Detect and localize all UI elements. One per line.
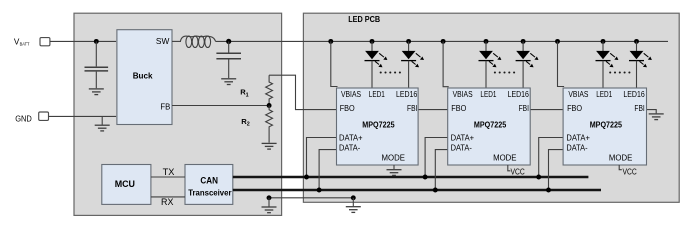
wire VBIAS1 [331, 41, 338, 86]
resistor R1 [266, 75, 273, 105]
wire DATA+ chip3 [539, 138, 563, 178]
wire VBATT to Buck [50, 40, 116, 42]
LED string D4 [516, 41, 539, 88]
svg-text:LED16: LED16 [396, 90, 418, 99]
wire MODE3 to VCC [619, 165, 622, 170]
node ground bus right [351, 195, 356, 200]
svg-text:RX: RX [161, 197, 173, 207]
ground MODE1 [387, 170, 402, 176]
port VBATT [40, 38, 50, 46]
svg-text:Transceiver: Transceiver [188, 188, 231, 197]
buck converter U buck [117, 30, 172, 125]
wire SW to inductor [172, 40, 181, 42]
dots separator chip3 [609, 71, 630, 73]
wire FBI2 to FBO3 [530, 109, 563, 111]
chip U1 MPQ7225 [337, 88, 419, 165]
ground FBI3 [649, 114, 664, 120]
svg-text:MCU: MCU [115, 179, 135, 189]
wire FB to divider [172, 105, 269, 107]
node DATA- bus chip3 [546, 188, 551, 193]
wire DATA+ chip1 [307, 138, 337, 178]
wire VBIAS2 [443, 41, 449, 86]
capacitor C_in [85, 41, 109, 88]
svg-text:FB: FB [160, 101, 170, 111]
svg-text:LED1: LED1 [480, 90, 496, 99]
LED string D6 [629, 41, 652, 88]
node DATA+ bus chip2 [423, 175, 428, 180]
wire TX [151, 176, 185, 178]
svg-text:VCC: VCC [623, 168, 637, 177]
bus DATA- [233, 189, 601, 191]
svg-text:LED16: LED16 [623, 90, 645, 99]
node VBIAS2 tap [441, 39, 446, 44]
svg-text:FBO: FBO [340, 104, 355, 113]
svg-text:VBIAS: VBIAS [568, 90, 588, 99]
svg-text:DATA-: DATA- [566, 143, 588, 152]
svg-text:GND: GND [15, 114, 32, 123]
svg-text:LED1: LED1 [596, 90, 612, 99]
svg-text:FBI: FBI [519, 104, 529, 113]
svg-text:Buck: Buck [133, 70, 153, 80]
svg-text:MPQ7225: MPQ7225 [474, 120, 507, 129]
node LED1-1 tap [370, 39, 375, 44]
svg-text:CAN: CAN [200, 175, 218, 185]
node DATA+ bus chip1 [304, 175, 309, 180]
wire FBI1 to FBO2 [418, 109, 448, 111]
LED string D3 [479, 41, 502, 88]
svg-text:MODE: MODE [382, 153, 405, 162]
svg-text:FBI: FBI [634, 104, 644, 113]
chip U3 MPQ7225 [563, 88, 646, 165]
node VBIAS3 tap [555, 39, 560, 44]
svg-text:DATA+: DATA+ [451, 133, 475, 142]
wire DATA+ chip2 [425, 138, 448, 178]
ground LED board stem [352, 198, 354, 206]
svg-text:LED1: LED1 [369, 90, 385, 99]
CAN transceiver block [185, 165, 233, 205]
node LED1-3 tap [601, 39, 606, 44]
svg-text:VCC: VCC [511, 167, 525, 176]
node FB divider junction [267, 103, 272, 108]
port GND [39, 112, 49, 120]
wire DATA- chip3 [549, 150, 564, 190]
svg-text:MODE: MODE [493, 153, 516, 162]
wire DATA- chip1 [319, 150, 336, 190]
svg-text:DATA+: DATA+ [339, 133, 363, 142]
ground bus between boards [269, 197, 353, 199]
main PCB board box [74, 13, 282, 215]
node DATA+ bus chip3 [536, 175, 541, 180]
node output cap [226, 39, 231, 44]
capacitor C_out [216, 41, 241, 78]
LED string D2 [401, 41, 424, 88]
svg-text:BATT: BATT [20, 41, 30, 47]
svg-text:DATA-: DATA- [451, 143, 473, 152]
wire R1 top to FBO chip1 [269, 75, 336, 109]
MCU block [102, 165, 151, 205]
svg-text:LED PCB: LED PCB [348, 15, 380, 24]
ground main board [262, 207, 277, 213]
svg-text:DATA+: DATA+ [566, 133, 590, 142]
ground C_in [89, 89, 104, 95]
wire MODE2 to VCC [508, 165, 511, 171]
chip U3 pin labels [566, 90, 645, 162]
svg-text:FBI: FBI [407, 104, 417, 113]
node ground bus left [267, 195, 272, 200]
svg-text:DATA-: DATA- [339, 143, 361, 152]
wire inductor to LED PCB top rail [216, 40, 668, 42]
ground LED board [346, 207, 361, 213]
LED PCB board box [303, 13, 679, 202]
ground GND-port [95, 125, 110, 131]
chip U2 MPQ7225 [448, 88, 531, 165]
svg-text:MPQ7225: MPQ7225 [362, 120, 395, 129]
dots separator chip1 [380, 71, 401, 73]
node LED16-1 tap [406, 39, 411, 44]
wire VBIAS3 [558, 41, 565, 86]
svg-text:FBO: FBO [451, 104, 466, 113]
node DATA- bus chip1 [317, 188, 322, 193]
node VBIAS1 tap [328, 39, 333, 44]
chip U1 pin labels [339, 90, 418, 162]
svg-text:MODE: MODE [609, 153, 632, 162]
node LED16-2 tap [521, 39, 526, 44]
bus DATA+ [233, 176, 589, 178]
ground C_out [221, 79, 236, 85]
LED string D1 [365, 41, 388, 88]
node input cap tap [94, 39, 99, 44]
node LED16-3 tap [634, 39, 639, 44]
inductor L1 [180, 36, 215, 47]
svg-text:SW: SW [156, 36, 170, 46]
svg-text:MPQ7225: MPQ7225 [590, 120, 623, 129]
ground GND-port stem [101, 116, 103, 124]
node DATA- bus chip2 [433, 188, 438, 193]
LED string D5 [596, 41, 619, 88]
svg-text:TX: TX [163, 167, 175, 177]
wire RX [151, 196, 185, 198]
svg-text:FBO: FBO [567, 104, 582, 113]
wire GND to Buck [48, 115, 116, 117]
wire MODE1 stem [393, 165, 395, 169]
node LED1-2 tap [484, 39, 489, 44]
svg-text:VBIAS: VBIAS [341, 90, 361, 99]
chip U2 pin labels [451, 90, 530, 162]
dots separator chip2 [494, 71, 515, 73]
svg-text:VBIAS: VBIAS [453, 90, 473, 99]
resistor R2 [266, 106, 273, 143]
wire FBI3 to ground [647, 110, 657, 114]
ground main board stem [268, 198, 270, 207]
svg-text:LED16: LED16 [508, 90, 530, 99]
wire DATA- chip2 [435, 150, 447, 190]
ground R2 [262, 143, 277, 149]
